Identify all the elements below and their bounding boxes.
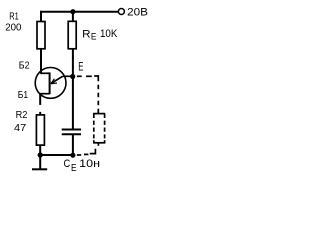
- transistor base bar: [49, 72, 51, 94]
- dashed wire node E dash 2: [86, 75, 92, 77]
- svg-text:Б2: Б2: [19, 59, 30, 71]
- svg-text:47: 47: [14, 122, 26, 134]
- svg-text:10н: 10н: [79, 158, 100, 170]
- dashed bottom dash 2: [77, 154, 81, 156]
- dashed corner bottom: [90, 149, 96, 154]
- wire RE bottom to capacitor: [72, 49, 74, 130]
- bottom rail wire: [40, 154, 73, 156]
- terminal 20V: [118, 9, 124, 15]
- ground bar: [32, 168, 47, 170]
- lead B1: [40, 93, 49, 95]
- top rail wire: [40, 11, 118, 13]
- svg-text:20В: 20В: [127, 6, 148, 18]
- svg-text:E: E: [91, 32, 97, 42]
- junction dot bottom left: [38, 152, 43, 157]
- dashed wire node E dash 1: [77, 75, 82, 77]
- dashed box top tick: [93, 113, 105, 115]
- svg-text:R2: R2: [16, 109, 28, 121]
- dashed box right side: [104, 114, 106, 143]
- wire R1 top lead: [40, 11, 42, 22]
- capacitor CE bottom plate: [62, 133, 81, 135]
- dashed vertical dashes: [97, 85, 99, 90]
- dashed box bottom tick: [93, 142, 105, 144]
- wire R1 bottom to transistor B2: [40, 49, 42, 74]
- wire R2 bottom: [39, 145, 41, 155]
- resistor R2: [36, 115, 44, 145]
- svg-text:200: 200: [5, 21, 21, 33]
- resistor RE: [68, 21, 76, 49]
- wire B1 down: [39, 94, 41, 105]
- svg-text:C: C: [64, 158, 71, 170]
- emitter diagonal: [51, 76, 63, 83]
- dashed wire corner top: [94, 76, 98, 81]
- dashed box left side: [93, 114, 95, 143]
- transistor Q1 circle: [35, 68, 66, 99]
- ground stub: [39, 155, 41, 169]
- wire above R2: [39, 112, 41, 115]
- wire RE top lead: [72, 12, 74, 22]
- emitter wire horizontal: [63, 75, 73, 77]
- wire capacitor bottom: [72, 134, 74, 155]
- svg-text:E: E: [71, 163, 77, 174]
- dashed stub below box: [97, 143, 99, 146]
- capacitor CE top plate: [62, 129, 81, 131]
- resistor R1: [37, 22, 45, 49]
- svg-text:Б1: Б1: [18, 89, 28, 101]
- junction dot bottom mid: [70, 153, 75, 158]
- node dot E: [70, 74, 75, 79]
- svg-text:E: E: [78, 59, 83, 73]
- emitter arrowhead: [51, 82, 57, 85]
- node dot top: [70, 9, 75, 14]
- svg-text:R: R: [82, 28, 90, 40]
- svg-text:10K: 10K: [100, 28, 118, 40]
- lead B2: [40, 72, 49, 74]
- dashed bottom dash 1: [84, 153, 88, 155]
